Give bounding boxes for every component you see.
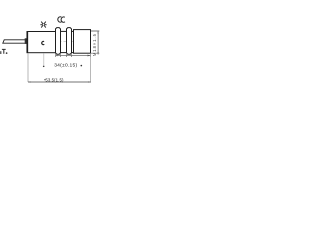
svg-text:M18×1.5: M18×1.5 — [92, 33, 97, 56]
svg-text:53.5(1.5): 53.5(1.5) — [45, 78, 64, 83]
svg-text:34(±0.15): 34(±0.15) — [54, 62, 77, 68]
